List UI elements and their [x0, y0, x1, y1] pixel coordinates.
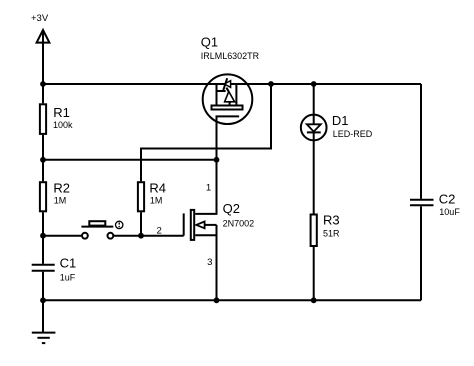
svg-text:LED-RED: LED-RED: [333, 129, 373, 139]
svg-text:+3V: +3V: [31, 13, 49, 24]
svg-text:R4: R4: [149, 180, 166, 195]
svg-text:3: 3: [207, 257, 212, 268]
svg-text:51R: 51R: [323, 228, 340, 238]
svg-text:IRLML6302TR: IRLML6302TR: [201, 51, 259, 62]
svg-text:C2: C2: [439, 192, 456, 207]
svg-text:1: 1: [206, 183, 211, 194]
svg-text:Q2: Q2: [223, 201, 240, 216]
svg-text:2N7002: 2N7002: [223, 219, 255, 229]
svg-text:100k: 100k: [53, 120, 73, 130]
svg-text:1uF: 1uF: [60, 273, 76, 283]
svg-text:R3: R3: [323, 212, 340, 227]
svg-text:2: 2: [157, 226, 162, 237]
svg-text:C1: C1: [60, 256, 77, 271]
svg-text:Q1: Q1: [201, 35, 218, 50]
svg-text:1M: 1M: [54, 195, 67, 205]
svg-text:R2: R2: [53, 180, 70, 195]
svg-text:1M: 1M: [150, 195, 163, 205]
svg-text:R1: R1: [53, 105, 70, 120]
svg-text:D1: D1: [332, 113, 349, 128]
svg-text:10uF: 10uF: [439, 207, 460, 217]
